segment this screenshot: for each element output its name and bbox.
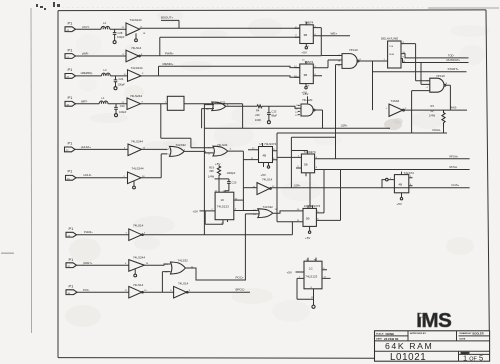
monostable U-74LS123 no2 <box>287 258 331 309</box>
nand U-74LS20 <box>295 92 315 117</box>
connector P1 pin 22 <box>65 141 76 153</box>
svg-text:68pF: 68pF <box>271 114 277 118</box>
wire HOLD- <box>76 177 128 179</box>
title block row lines <box>375 336 490 351</box>
svg-text:74LS32: 74LS32 <box>176 143 187 147</box>
wire LS20 out to half-R <box>315 110 322 128</box>
scan faint top dotted line <box>62 6 425 8</box>
capacitor C20 <box>114 104 127 117</box>
svg-text:+5V: +5V <box>215 162 220 166</box>
svg-text:1/4W: 1/4W <box>429 114 436 118</box>
svg-text:DCHG-: DCHG- <box>433 128 442 132</box>
svg-text:1000pF: 1000pF <box>227 171 236 175</box>
svg-text:64K RAM: 64K RAM <box>385 341 433 351</box>
wire OR-B out down <box>228 151 244 210</box>
buffer U-74LS244c <box>122 94 144 110</box>
svg-text:1/2R+: 1/2R+ <box>294 183 301 187</box>
svg-text:P1: P1 <box>68 67 74 72</box>
svg-text:74LS123: 74LS123 <box>305 275 317 279</box>
svg-text:C24: C24 <box>119 77 124 81</box>
svg-text:SCALE: SCALE <box>376 333 384 336</box>
buffer U-74LS244b <box>124 66 145 82</box>
svg-text:P1: P1 <box>69 284 75 289</box>
flip-flop U-74S74 no2 <box>294 59 322 89</box>
or-gate U-74LS32 noC <box>253 205 277 217</box>
svg-text:C20: C20 <box>232 180 237 184</box>
svg-text:RFSH-: RFSH- <box>450 165 458 169</box>
svg-text:P1: P1 <box>68 21 74 26</box>
svg-text:4B: 4B <box>399 183 403 187</box>
svg-text:POC-: POC- <box>83 288 90 292</box>
wire pWAIT+ <box>77 264 129 266</box>
paper noise <box>65 9 490 327</box>
inverter U-74S04 <box>386 99 408 116</box>
wire LS123 pin13 out <box>234 199 244 201</box>
capacitor C21 1000pF <box>215 171 237 192</box>
page border left <box>57 11 59 358</box>
svg-text:74S10: 74S10 <box>436 74 445 78</box>
buffer U-74LS244d <box>124 140 146 156</box>
page border bottom <box>58 357 375 360</box>
svg-text:RFSH+: RFSH+ <box>450 154 459 158</box>
capacitor C24 <box>114 76 126 90</box>
svg-text:TOD-: TOD- <box>448 53 454 57</box>
wire FF2 Q to NAND <box>317 60 342 68</box>
svg-text:xOUT-: xOUT- <box>82 25 90 29</box>
wire RFSH+ net <box>315 158 470 160</box>
svg-text:3B: 3B <box>304 73 308 77</box>
delay line DL1 <box>381 37 406 68</box>
wire inverter-e input <box>243 187 257 189</box>
svg-text:R3: R3 <box>431 104 435 108</box>
connector P1 pin 27 <box>65 47 76 58</box>
svg-text:P1: P1 <box>68 141 74 146</box>
connector P1 pin 45 <box>65 95 76 106</box>
nand U-74S10 no2 <box>427 74 448 92</box>
buffer U-74LS244e <box>124 167 146 189</box>
or-gate U-74LS32 no2 <box>165 258 194 274</box>
wire vertical feed bus <box>276 133 278 222</box>
scan specks top-left <box>36 2 60 10</box>
wire to buffer4 <box>108 103 127 105</box>
svg-text:C20: C20 <box>120 104 125 108</box>
svg-text:DELAY/LINE: DELAY/LINE <box>381 37 398 41</box>
svg-text:MEMR+: MEMR+ <box>163 62 174 66</box>
wire WRT- <box>76 103 100 105</box>
svg-text:74LS14: 74LS14 <box>262 177 273 181</box>
svg-text:RAS-: RAS- <box>450 105 457 109</box>
svg-text:74S10: 74S10 <box>349 48 358 52</box>
register U-74LS374 no1 <box>243 142 277 168</box>
svg-text:74LS32: 74LS32 <box>263 205 274 209</box>
svg-text:3B: 3B <box>304 33 308 37</box>
wire HOLD buffered up to OR1 <box>141 154 168 178</box>
svg-text:33K: 33K <box>209 169 214 173</box>
svg-text:pWR-: pWR- <box>82 52 89 56</box>
svg-text:220: 220 <box>255 113 260 117</box>
wire DCHG horizontal link <box>277 132 412 134</box>
svg-text:HOLD-: HOLD- <box>84 173 92 177</box>
or-gate U-74LS32 noB <box>208 143 232 156</box>
svg-text:APPROVED BY: APPROVED BY <box>410 332 426 335</box>
connector P1 pin 21 <box>66 257 77 268</box>
title block column lines <box>408 331 490 361</box>
svg-text:NONE: NONE <box>386 332 395 336</box>
svg-text:+5V: +5V <box>305 236 310 240</box>
svg-text:1/2R+: 1/2R+ <box>341 124 348 128</box>
wire OR1 out <box>184 151 214 153</box>
wire POC+ net <box>185 214 246 280</box>
wire START+ net <box>373 61 467 110</box>
or-gate U-74LS32 no1 <box>168 143 186 156</box>
wire NAND2 out to RAS <box>446 85 451 110</box>
wire DCHG- net <box>412 132 447 134</box>
inverter U-74LS14b <box>126 224 147 241</box>
svg-text:74S04: 74S04 <box>391 99 400 103</box>
title block outer frame <box>375 331 490 361</box>
svg-text:ICAS+: ICAS+ <box>452 183 460 187</box>
svg-text:BPOC-: BPOC- <box>236 288 246 292</box>
buffer U-74LS244f <box>125 255 149 277</box>
svg-text:START+: START+ <box>448 67 460 71</box>
resistor R4 <box>255 105 301 122</box>
svg-text:R4: R4 <box>256 109 260 113</box>
svg-text:74LS123: 74LS123 <box>217 205 229 209</box>
wire to buffer <box>110 28 126 30</box>
svg-text:+5V: +5V <box>303 92 308 96</box>
svg-text:L01021: L01021 <box>390 352 426 363</box>
svg-text:+5V: +5V <box>261 173 266 177</box>
left margin line <box>30 8 33 333</box>
wire row4 to OR inputs <box>161 104 243 148</box>
svg-text:74LS14: 74LS14 <box>133 283 144 287</box>
svg-text:10: 10 <box>221 198 225 202</box>
inverter U-74LS14e <box>253 177 276 194</box>
svg-text:74LS14: 74LS14 <box>178 282 189 286</box>
svg-text:74LS244: 74LS244 <box>130 94 142 98</box>
connector P1 pin 43 <box>65 21 76 33</box>
wire RAS- net <box>404 109 467 111</box>
svg-text:C13: C13 <box>272 109 277 113</box>
wire MEMR+ net <box>141 66 300 77</box>
svg-text:100pF: 100pF <box>118 83 126 87</box>
delay loop box <box>167 96 184 110</box>
title block sheet cell <box>461 352 470 355</box>
wire BSOUT+ net <box>140 20 300 28</box>
wire xOUT- <box>76 28 102 30</box>
capacitor C13 <box>267 106 277 123</box>
svg-text:P1: P1 <box>69 226 75 231</box>
IMS logo <box>416 309 451 332</box>
svg-text:4B: 4B <box>263 154 267 158</box>
wire OR-A inputs <box>202 104 214 235</box>
wire OR-C in13 <box>245 213 258 215</box>
svg-text:5B: 5B <box>304 163 308 167</box>
wire WRT buffered <box>141 103 168 105</box>
pencil smudge <box>384 119 402 130</box>
svg-text:5B: 5B <box>306 217 310 221</box>
scan speck left middle <box>1 253 14 254</box>
wire TOD- net <box>401 54 469 58</box>
wire pWR- <box>76 55 127 57</box>
wire MUXROW+ net <box>401 59 469 63</box>
svg-text:100pF: 100pF <box>119 110 127 114</box>
svg-text:74LS244: 74LS244 <box>130 18 142 22</box>
svg-text:+5V: +5V <box>193 209 198 213</box>
svg-text:74LS32: 74LS32 <box>178 258 189 262</box>
flip-flop U-74S74 no1 <box>295 20 318 49</box>
wire 1/2R+ net <box>204 127 390 129</box>
svg-text:R19: R19 <box>209 165 214 169</box>
capacitor C28 <box>113 29 125 43</box>
wire NAND1 in3 from below <box>336 65 343 159</box>
svg-text:74LS14: 74LS14 <box>131 46 142 50</box>
svg-text:MUXROW+: MUXROW+ <box>447 58 461 62</box>
svg-text:74LS244: 74LS244 <box>132 167 144 171</box>
svg-text:+5V: +5V <box>397 202 402 206</box>
wire xMEMRQ- <box>76 75 102 77</box>
nand U-74S10 no1 <box>338 48 362 69</box>
resistor R3 <box>429 104 445 133</box>
connector P1 pin 54 <box>66 169 77 181</box>
svg-text:P1: P1 <box>68 47 74 52</box>
or-gate U-74LS32 noA <box>206 100 229 110</box>
svg-text:P1: P1 <box>68 169 74 174</box>
svg-text:+5V: +5V <box>302 51 307 55</box>
svg-text:P1: P1 <box>68 95 74 100</box>
inverter U-74LS14d <box>170 282 191 298</box>
wire POC- <box>77 291 129 293</box>
register U-74LS374 no3 <box>297 170 341 234</box>
connector P1 pin 30 <box>66 284 77 295</box>
inverter U-74LS14c <box>125 283 148 298</box>
svg-text:DRAWN BY: DRAWN BY <box>460 332 472 335</box>
svg-text:74LS244: 74LS244 <box>131 140 143 144</box>
wire POC inverted <box>143 272 173 293</box>
monostable U-74LS123 no1 <box>193 191 234 225</box>
svg-text:PWR+: PWR+ <box>165 51 174 55</box>
svg-text:DATE: DATE <box>460 338 466 341</box>
svg-text:DATE: DATE <box>376 338 382 341</box>
wire LS123 pin4 to OR-C <box>234 210 258 212</box>
svg-text:+5V: +5V <box>287 270 292 274</box>
wire PHI22+ <box>77 234 129 236</box>
wire NAND2 in2 tap <box>421 63 430 85</box>
connector P1 pin 24 <box>66 226 77 237</box>
wire NAND2 in3 from DCHG <box>412 91 430 133</box>
wire OR-C out to 374no3 <box>273 211 303 213</box>
svg-text:1/4W: 1/4W <box>255 118 262 122</box>
svg-text:BOOLER: BOOLER <box>473 332 484 336</box>
svg-text:140B: 140B <box>389 54 395 56</box>
wire WE+ net <box>317 35 350 37</box>
page border right <box>486 10 489 331</box>
svg-text:74LS244: 74LS244 <box>133 255 145 259</box>
svg-text:BSOUT+: BSOUT+ <box>161 16 173 20</box>
wire OR-A out <box>226 105 257 107</box>
wire delay out pin9 to NAND2 <box>401 44 430 81</box>
svg-text:WE+: WE+ <box>331 32 338 36</box>
inverter U-74LS14a <box>123 46 144 62</box>
svg-text:pWAIT+: pWAIT+ <box>83 261 93 265</box>
wire PHI2 net long <box>143 222 303 235</box>
svg-text:WRT-: WRT- <box>81 100 88 104</box>
buffer U-74LS244a <box>122 18 147 41</box>
page border top <box>58 9 486 12</box>
svg-text:IMS: IMS <box>416 309 451 332</box>
svg-text:xMEMRQ-: xMEMRQ- <box>81 71 93 75</box>
register U-74LS374 no2 <box>277 137 336 207</box>
wire BPOC- net <box>188 291 250 293</box>
wire WAIT buffered <box>144 264 170 265</box>
wire HLDA buffered <box>142 148 168 150</box>
resistor R19 <box>208 162 221 179</box>
wire RFSH- net <box>315 169 470 171</box>
wire PWR+ net <box>140 37 321 56</box>
svg-text:POC+: POC+ <box>236 275 245 279</box>
wire ICAS+ net <box>271 187 469 189</box>
svg-text:PHI22+: PHI22+ <box>84 230 93 234</box>
svg-text:74LS244: 74LS244 <box>131 66 143 70</box>
svg-text:P1: P1 <box>69 257 75 262</box>
wire to buffer3 <box>110 75 127 77</box>
wire pHLDA+ <box>75 148 128 150</box>
svg-text:100pF: 100pF <box>117 35 125 39</box>
svg-text:C28: C28 <box>118 31 123 35</box>
wire FF1 Q to NAND <box>317 28 342 56</box>
svg-text:1/4W: 1/4W <box>208 174 215 178</box>
wire NAND1 out to delay line <box>359 60 388 62</box>
connector P1 pin 47 <box>65 67 76 79</box>
flip-flop U-74LS74 right <box>382 171 414 200</box>
svg-text:pHLDA+: pHLDA+ <box>81 145 91 149</box>
svg-text:74LS14: 74LS14 <box>133 224 144 228</box>
